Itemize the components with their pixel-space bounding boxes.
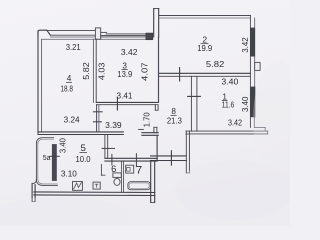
door D5 kitchen tick: [102, 147, 114, 149]
fixture kitchen sink zigzag box: [73, 182, 83, 191]
wall hatch bar right upper: [250, 28, 255, 57]
wall room 4 lower right (corridor side): [96, 105, 98, 132]
svg-text:3.21: 3.21: [66, 43, 81, 52]
door D4 tick room 4 upper: [93, 111, 102, 113]
loggia 5a outline inner: [38, 139, 58, 184]
svg-text:11.6: 11.6: [222, 100, 235, 109]
wall bottom outer: [34, 191, 155, 194]
wall pier A top: [95, 28, 100, 39]
svg-text:3.42: 3.42: [241, 37, 250, 53]
fixture toilet tank: [113, 173, 121, 178]
wall right inner line: [254, 18, 256, 117]
wall below room 2: [159, 72, 250, 74]
wall lobby right: [156, 135, 158, 160]
loggia hatch bar wall: [52, 144, 57, 181]
wall left outer line: [37, 31, 39, 133]
door D6 tick room 6: [111, 154, 113, 165]
svg-text:4.03: 4.03: [97, 63, 106, 81]
svg-text:3.40: 3.40: [58, 137, 67, 153]
wall divider rooms 3/4: [92, 39, 94, 102]
wall outer top-left corner with chamfer: [38, 30, 50, 36]
fixture bathtub: [128, 182, 150, 190]
wall top outer face room 4: [47, 29, 96, 31]
wall divider rooms 6/7: [120, 161, 122, 192]
wall kitchen right: [104, 135, 106, 158]
wall corridor bottom left segment: [38, 131, 123, 133]
svg-text:3.24: 3.24: [64, 115, 81, 124]
window sill inner line: [42, 38, 146, 40]
door D4 tick room 4 lower: [93, 121, 101, 123]
wall lower-left stub: [31, 183, 33, 201]
wall party wall room 2 left: [153, 9, 155, 37]
svg-text:6: 6: [111, 163, 116, 174]
svg-text:3.39: 3.39: [105, 121, 122, 130]
wall left inner line: [41, 39, 43, 131]
wall top room 2: [159, 15, 251, 17]
paper mottling: [175, 160, 295, 220]
svg-text:7: 7: [136, 164, 142, 176]
svg-text:5а: 5а: [43, 155, 51, 162]
door D1 tick room 1: [188, 95, 201, 97]
wall corridor bottom right segment: [142, 132, 158, 134]
wall T-stub lower hall: [153, 127, 155, 133]
svg-text:1.70: 1.70: [143, 112, 152, 128]
svg-text:3.10: 3.10: [61, 169, 78, 178]
svg-text:13.9: 13.9: [117, 70, 132, 79]
wall vestibule right: [185, 131, 187, 173]
door leaf kitchen: [100, 164, 102, 175]
wall step bottom-right corner: [253, 117, 255, 127]
svg-text:19.9: 19.9: [197, 44, 212, 53]
door jamb tick lobby: [139, 128, 144, 130]
fixture toilet bowl: [114, 178, 120, 185]
door D8 entrance tick: [170, 151, 172, 165]
wall T-stub upper hall: [154, 105, 156, 111]
svg-text:3.40: 3.40: [241, 96, 250, 112]
wall lower-right stub: [150, 161, 152, 203]
door D3 tick room 3: [116, 97, 118, 110]
svg-text:8: 8: [171, 107, 176, 116]
svg-text:5.82: 5.82: [206, 59, 225, 69]
door D7 tick room 7: [135, 154, 137, 167]
svg-text:3.40: 3.40: [221, 77, 239, 86]
wall pier B dark: [146, 33, 153, 40]
loggia 5a outline outer: [36, 138, 57, 186]
door tick loggia: [50, 155, 60, 157]
svg-text:21.3: 21.3: [167, 117, 182, 126]
svg-text:4.07: 4.07: [141, 62, 150, 81]
wall entrance: [151, 155, 187, 157]
svg-text:18.8: 18.8: [60, 85, 73, 94]
svg-text:3.41: 3.41: [117, 92, 133, 101]
svg-text:3.42: 3.42: [121, 48, 138, 57]
wall hatch bar right lower: [250, 87, 255, 118]
wall room 1 / hall: [190, 76, 192, 131]
wall right outer line: [249, 16, 251, 128]
door D2 tick room 2: [179, 68, 181, 81]
wall step from pier: [101, 31, 107, 33]
svg-text:4: 4: [67, 74, 72, 83]
wall top rooms 6 and 7: [105, 157, 157, 159]
wall right of room 3: [158, 37, 160, 103]
wall join loggia to stub: [33, 180, 36, 184]
window W1 room 4 glazing: [50, 34, 95, 36]
wall pier C notch: [255, 62, 260, 70]
svg-text:5.82: 5.82: [82, 62, 91, 80]
fixture kitchen stove box: [93, 182, 100, 189]
wall below room 3: [96, 101, 157, 103]
svg-text:10.0: 10.0: [76, 155, 92, 164]
wall below room 1: [186, 130, 268, 132]
window W2 room 3 glazing band: [106, 33, 146, 35]
svg-text:3.42: 3.42: [228, 118, 242, 127]
fixture washbasin: [126, 165, 134, 173]
